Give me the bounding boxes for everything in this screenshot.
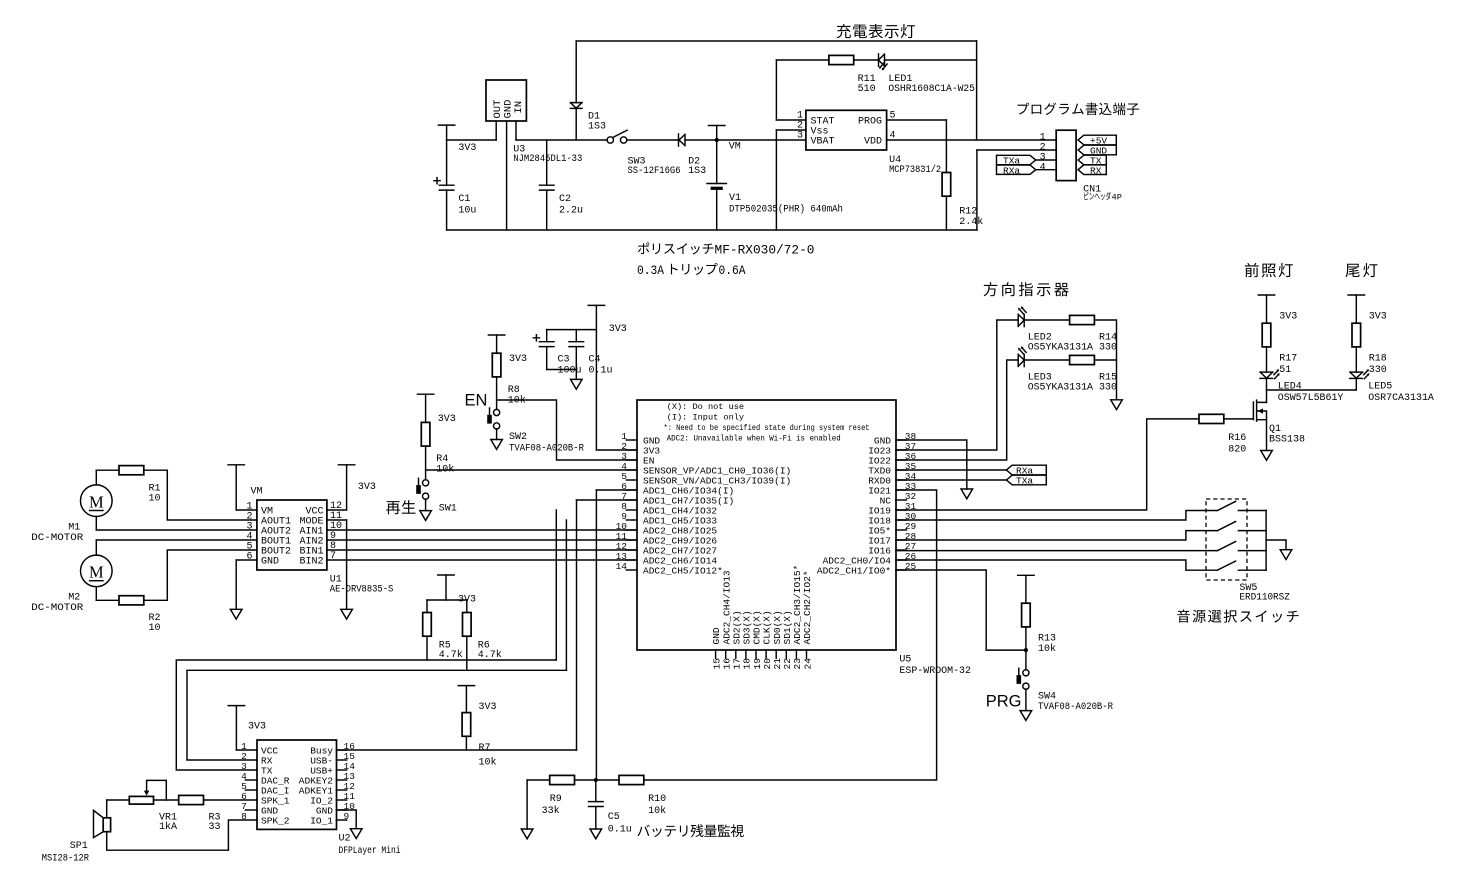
wire IO19 to R16 bbox=[896, 419, 1199, 510]
ground (SW1) bbox=[420, 511, 432, 521]
wire U2 SPK2 to speaker bbox=[107, 820, 257, 850]
wire C3 C4 top bbox=[547, 329, 597, 331]
power 3V3 (U1 VCC) bbox=[338, 465, 376, 510]
resistor R16 820 bbox=[1199, 414, 1246, 455]
wire C3 C4 bottom bbox=[547, 370, 577, 380]
net tag RXa (ESP side) bbox=[1006, 465, 1046, 477]
label program write terminal bbox=[1018, 103, 1140, 116]
svg-text:R9: R9 bbox=[550, 794, 562, 805]
svg-text:10k: 10k bbox=[648, 805, 666, 817]
wire IO16 to SW5 sw3 bbox=[896, 550, 1217, 552]
svg-text:0.1u: 0.1u bbox=[608, 825, 632, 836]
label headlight bbox=[1245, 263, 1293, 277]
svg-text:(X): Do not use: (X): Do not use bbox=[667, 402, 744, 412]
svg-text:51: 51 bbox=[1279, 365, 1291, 376]
wire U4 VDD pin4 to CN1 bbox=[887, 139, 1057, 141]
svg-text:R13: R13 bbox=[1038, 634, 1056, 645]
diode D1 1S3 bbox=[570, 41, 606, 140]
wire U4 STAT pin1 bbox=[776, 60, 806, 120]
wire CN1 pin3 bbox=[1036, 159, 1057, 161]
wire U4 PROG pin5 bbox=[887, 119, 947, 121]
net tag TXa (CN1 side) bbox=[997, 155, 1036, 166]
svg-text:0.1u: 0.1u bbox=[589, 366, 613, 377]
ground (U2 pin10) bbox=[350, 829, 362, 839]
IC U2 DFPlayer Mini bbox=[241, 740, 400, 857]
svg-text:3V3: 3V3 bbox=[479, 702, 497, 713]
resistor R7 10k bbox=[462, 713, 496, 769]
svg-text:330: 330 bbox=[1099, 383, 1117, 394]
power 3V3 (R7) bbox=[458, 686, 496, 713]
wire CN1 pin2 GND bbox=[977, 150, 1056, 230]
wire U1 GND pin6 bbox=[236, 560, 257, 609]
label EN bbox=[465, 392, 488, 410]
connector CN1 pin header 4P bbox=[1040, 130, 1101, 195]
svg-text:3V3: 3V3 bbox=[358, 482, 376, 493]
svg-text:EN: EN bbox=[465, 392, 488, 410]
resistor R5 4.7k bbox=[423, 613, 463, 662]
resistor R1 10 bbox=[119, 466, 161, 505]
resistor R9 33k bbox=[542, 775, 575, 817]
ground (SW4) bbox=[1020, 711, 1032, 721]
svg-text:BSS138: BSS138 bbox=[1269, 435, 1305, 446]
wire U4 Vss pin2 to ground bbox=[776, 130, 806, 230]
label saisei (play) bbox=[386, 500, 415, 514]
power 3V3 (R5 R6) bbox=[438, 575, 476, 606]
label pin-header-4P bbox=[1084, 192, 1122, 203]
wire R2 to U1 BOUT2 bbox=[144, 550, 257, 600]
svg-text:SW4: SW4 bbox=[1038, 692, 1056, 703]
svg-text:U2: U2 bbox=[339, 834, 351, 845]
svg-text:SP1: SP1 bbox=[70, 841, 88, 852]
ground (Q1) bbox=[1261, 451, 1273, 461]
wire M1 plus to R1 bbox=[96, 470, 119, 485]
diode D2 1S3 bbox=[679, 134, 707, 177]
label sound select switch bbox=[1177, 610, 1298, 623]
svg-text:ADC2_CH2/IO2*: ADC2_CH2/IO2* bbox=[802, 570, 813, 644]
svg-text:4P: 4P bbox=[1112, 193, 1123, 203]
DIP switch SW5 ERD110RSZ bbox=[1206, 499, 1290, 604]
svg-text:V1: V1 bbox=[729, 193, 741, 204]
node VM bbox=[709, 126, 741, 153]
resistor R2 10 bbox=[119, 596, 161, 634]
svg-text:IN: IN bbox=[513, 101, 525, 114]
wire regulator input node bbox=[516, 139, 607, 141]
ground (U1 pin11) bbox=[341, 609, 353, 619]
capacitor C4 0.1u bbox=[569, 330, 613, 377]
svg-text:Q1: Q1 bbox=[1269, 424, 1281, 435]
wire Q1 source to ground bbox=[1266, 420, 1268, 451]
svg-text:1kA: 1kA bbox=[159, 821, 177, 833]
ground (C5) bbox=[590, 829, 602, 839]
resistor R15 330 bbox=[1024, 355, 1117, 393]
net tag +5V bbox=[1078, 135, 1116, 147]
wire U1 AIN1 to ESP IO25 bbox=[327, 529, 637, 531]
svg-text:VM: VM bbox=[251, 487, 263, 498]
svg-text:4: 4 bbox=[1040, 163, 1046, 174]
wire 3V3 to U2 pin1 bbox=[236, 749, 257, 751]
wire R4 to ESP SENSOR_VP bbox=[426, 469, 637, 471]
switch SW2 TVAF08-A020B-R bbox=[487, 408, 584, 455]
svg-text:510: 510 bbox=[858, 84, 876, 95]
wire IO23 to LED2 bbox=[896, 320, 1018, 450]
power 3V3 (R4) bbox=[417, 394, 455, 425]
svg-text:C1: C1 bbox=[458, 194, 470, 205]
wire LED2 LED3 common bbox=[1094, 320, 1116, 400]
power 3V3 (U2 VCC) bbox=[228, 706, 266, 750]
svg-text:3V3: 3V3 bbox=[438, 414, 456, 425]
svg-text:U5: U5 bbox=[899, 655, 911, 666]
net tag RXa (CN1 side) bbox=[997, 165, 1036, 176]
svg-text:OS5YKA3131A: OS5YKA3131A bbox=[1028, 343, 1093, 354]
wire IO4 to SW5 sw4 bbox=[896, 560, 1217, 570]
net tag GND bbox=[1078, 145, 1116, 157]
svg-text:0.3A: 0.3A bbox=[637, 264, 664, 278]
wire R1 to U1 AOUT1 bbox=[144, 470, 257, 520]
svg-text:RX: RX bbox=[1090, 165, 1102, 176]
svg-text:10: 10 bbox=[149, 494, 161, 505]
svg-text:R4: R4 bbox=[436, 454, 448, 465]
svg-text:(I): Input only: (I): Input only bbox=[667, 413, 744, 423]
potentiometer VR1 1kA bbox=[129, 780, 177, 833]
svg-text:M1: M1 bbox=[68, 523, 80, 534]
svg-text:R7: R7 bbox=[479, 743, 491, 754]
resistor R6 4.7k bbox=[463, 613, 502, 671]
svg-text:820: 820 bbox=[1228, 445, 1246, 456]
wire ESP IO35 stub bbox=[577, 499, 638, 501]
svg-text:10k: 10k bbox=[479, 757, 497, 769]
wire U3 OUT pin bbox=[495, 121, 497, 140]
capacitor C5 0.1u bbox=[589, 780, 632, 836]
svg-text:3V3: 3V3 bbox=[1369, 312, 1387, 323]
net tag TXa (ESP side) bbox=[1006, 475, 1046, 487]
svg-text:MSI28-12R: MSI28-12R bbox=[42, 854, 89, 865]
svg-text:C2: C2 bbox=[559, 194, 571, 205]
svg-text:24: 24 bbox=[802, 658, 813, 670]
svg-text:MF-RX030/72-0: MF-RX030/72-0 bbox=[715, 244, 815, 258]
svg-text:LED4: LED4 bbox=[1278, 382, 1302, 393]
svg-text:ESP-WROOM-32: ESP-WROOM-32 bbox=[899, 666, 971, 677]
wire U1 BIN1 to ESP IO27 bbox=[327, 549, 637, 551]
svg-text:3: 3 bbox=[797, 131, 803, 142]
wire R3 to U2 SPK1 bbox=[204, 799, 258, 801]
motor M1 DC-MOTOR bbox=[31, 485, 112, 544]
wire ground rail bbox=[447, 229, 977, 231]
power 3V3 (R8) bbox=[488, 335, 527, 365]
resistor R14 330 bbox=[1024, 315, 1117, 353]
svg-text:M: M bbox=[89, 563, 104, 582]
svg-text:TVAF08-A020B-R: TVAF08-A020B-R bbox=[509, 444, 584, 455]
wire LED4 LED5 to Q1 drain bbox=[1267, 378, 1357, 402]
label PRG bbox=[986, 693, 1022, 711]
wire 3V3 to U1 pin12 bbox=[327, 509, 347, 511]
wire SW1 to ground bbox=[425, 499, 427, 511]
ground (SW5) bbox=[1280, 550, 1292, 560]
LED LED1 OSHR1608C1A-W25 bbox=[879, 54, 975, 95]
capacitor C2 2.2u bbox=[539, 140, 583, 230]
svg-text:ADC2: Unavailable when Wi-Fi i: ADC2: Unavailable when Wi-Fi is enabled bbox=[667, 433, 841, 443]
svg-text:OSHR1608C1A-W25: OSHR1608C1A-W25 bbox=[888, 84, 975, 95]
wire U1 MODE pin11 to ground bbox=[327, 520, 347, 609]
switch SW4 TVAF08-A020B-R bbox=[1017, 668, 1114, 713]
LED LED3 OS5YKA3131A bbox=[1018, 346, 1093, 393]
wire M1 minus to U1 AOUT2 bbox=[96, 517, 257, 531]
wire U2 DAC stubs bbox=[245, 780, 257, 790]
svg-text:3V3: 3V3 bbox=[1279, 312, 1297, 323]
wire IO33 vertical bbox=[565, 520, 567, 670]
svg-text:VBAT: VBAT bbox=[811, 137, 835, 148]
LED LED4 OSW57L5B61Y bbox=[1260, 369, 1343, 404]
wire VR1 left to speaker bbox=[107, 800, 130, 818]
resistor R11 510 bbox=[829, 55, 876, 95]
svg-text:6: 6 bbox=[246, 552, 252, 563]
wire M2 plus to U1 BOUT1 bbox=[96, 540, 257, 555]
wire IO35 vertical bbox=[576, 500, 578, 750]
wire SW2 to ground bbox=[496, 429, 498, 440]
svg-text:SW1: SW1 bbox=[439, 504, 457, 515]
svg-text:10: 10 bbox=[149, 623, 161, 634]
resistor R12 2.4k bbox=[942, 120, 983, 230]
svg-text:SS-12F16G6: SS-12F16G6 bbox=[628, 166, 681, 177]
capacitor C1 10u bbox=[434, 140, 477, 230]
net tag TX bbox=[1078, 155, 1106, 167]
svg-text:AE-DRV8835-S: AE-DRV8835-S bbox=[330, 585, 394, 596]
svg-text:3V3: 3V3 bbox=[248, 722, 266, 733]
svg-text:OSR7CA3131A: OSR7CA3131A bbox=[1368, 393, 1434, 404]
resistor R13 10k bbox=[1022, 603, 1056, 670]
svg-text:1S3: 1S3 bbox=[588, 122, 606, 133]
svg-text:C3: C3 bbox=[558, 355, 570, 366]
wire IO18 to SW5 sw1 bbox=[896, 511, 1217, 521]
resistor R17 51 bbox=[1262, 323, 1297, 376]
wire VM to U1 pin1 bbox=[236, 509, 257, 511]
IC U5 ESP-WROOM-32 bbox=[616, 400, 971, 677]
svg-text:PRG: PRG bbox=[986, 693, 1022, 711]
wire STAT LED loop bbox=[776, 59, 976, 61]
wire Busy net bbox=[337, 749, 577, 751]
svg-text:1S3: 1S3 bbox=[688, 166, 706, 177]
wire U1 AIN2 to ESP IO26 bbox=[327, 539, 637, 541]
wire SW5 common to ground bbox=[1266, 540, 1286, 550]
wire SW4 to ground bbox=[1025, 689, 1027, 711]
svg-text:R17: R17 bbox=[1279, 354, 1297, 365]
wire IO22 to LED3 bbox=[896, 360, 1018, 460]
svg-text:CN1: CN1 bbox=[1083, 185, 1101, 196]
svg-text:33k: 33k bbox=[542, 805, 560, 817]
wire +5V top loop bbox=[576, 41, 976, 140]
battery V1 DTP502035(PHR) 640mAh bbox=[707, 140, 843, 230]
svg-text:R18: R18 bbox=[1369, 354, 1387, 365]
transistor Q1 BSS138 bbox=[1253, 400, 1305, 445]
ESP32 pin stubs bbox=[626, 440, 906, 658]
svg-text:DTP502035(PHR) 640mAh: DTP502035(PHR) 640mAh bbox=[729, 204, 843, 216]
svg-text:BIN2: BIN2 bbox=[299, 557, 323, 568]
LED LED5 OSR7CA3131A bbox=[1350, 369, 1434, 404]
svg-text:330: 330 bbox=[1369, 365, 1387, 376]
wire ESP GND pin38 to ground bbox=[896, 440, 967, 489]
wire VM rail bbox=[685, 139, 806, 141]
power 3V3 (ESP) bbox=[588, 305, 627, 450]
label battery level monitor bbox=[637, 824, 743, 837]
svg-text:C5: C5 bbox=[608, 812, 620, 823]
net tag RX bbox=[1078, 165, 1106, 177]
speaker SP1 MSI28-12R bbox=[42, 810, 111, 864]
wire ESP IO34 stub bbox=[596, 489, 637, 491]
ground (LED2 LED3) bbox=[1111, 400, 1123, 410]
ground (ESP pin38) bbox=[961, 489, 973, 499]
svg-text:R10: R10 bbox=[648, 794, 666, 805]
wire IO0 to PRG bbox=[896, 570, 1027, 650]
svg-text:RXa: RXa bbox=[1003, 165, 1020, 176]
wire U2 GND pin10 to ground bbox=[337, 810, 357, 829]
svg-text:TVAF08-A020B-R: TVAF08-A020B-R bbox=[1038, 702, 1113, 713]
svg-text:10k: 10k bbox=[1038, 643, 1056, 655]
svg-text:C4: C4 bbox=[589, 355, 601, 366]
svg-text:2.4k: 2.4k bbox=[959, 216, 983, 228]
wire R16 to Q1 gate bbox=[1224, 418, 1254, 420]
wire U3 GND pin bbox=[506, 121, 508, 230]
ground (R9) bbox=[521, 829, 533, 839]
svg-text:330: 330 bbox=[1099, 343, 1117, 354]
wire IO21 to battery divider bbox=[644, 490, 937, 780]
svg-text:VM: VM bbox=[729, 142, 741, 153]
svg-text:GND: GND bbox=[261, 557, 279, 568]
svg-text:R16: R16 bbox=[1228, 433, 1246, 444]
svg-text:DFPLayer Mini: DFPLayer Mini bbox=[339, 845, 401, 857]
capacitor C3 100u bbox=[533, 330, 581, 377]
svg-text:OSW57L5B61Y: OSW57L5B61Y bbox=[1278, 393, 1344, 404]
svg-text:R12: R12 bbox=[959, 207, 977, 218]
svg-text:LED5: LED5 bbox=[1368, 382, 1392, 393]
resistor R4 10k bbox=[421, 422, 454, 480]
svg-text:4.7k: 4.7k bbox=[439, 649, 463, 661]
wire CN1 pin4 bbox=[1036, 169, 1057, 171]
svg-text:ADC2_CH1/IO0*: ADC2_CH1/IO0* bbox=[817, 566, 891, 577]
wire U2 GND pin7 stub bbox=[245, 809, 257, 811]
svg-text:SW2: SW2 bbox=[509, 432, 527, 443]
switch SW1 TVAF08-A020B-R bbox=[416, 478, 457, 514]
resistor R10 10k bbox=[619, 775, 666, 817]
ground (U1 pin6) bbox=[230, 609, 242, 619]
svg-text:TXa: TXa bbox=[1016, 476, 1033, 487]
svg-text:33: 33 bbox=[209, 822, 221, 833]
svg-text:R8: R8 bbox=[508, 385, 520, 396]
svg-text:VDD: VDD bbox=[864, 137, 882, 148]
wire U2 right pin stubs bbox=[337, 750, 347, 820]
wire TXD0 bbox=[896, 469, 1006, 471]
LED LED2 OS5YKA3131A bbox=[1018, 306, 1093, 353]
wire M2 minus to R2 bbox=[96, 587, 119, 601]
svg-text:NJM2845DL1-33: NJM2845DL1-33 bbox=[513, 154, 582, 165]
svg-text:*: Need to be specified state: *: Need to be specified state during sys… bbox=[664, 423, 870, 433]
wire net EN to ESP pin3 bbox=[497, 400, 637, 460]
wire R5 R6 tops bbox=[427, 600, 467, 613]
power 3V3 regulator output bbox=[438, 125, 476, 154]
svg-text:DC-MOTOR: DC-MOTOR bbox=[31, 533, 83, 544]
wire 3V3 to ESP pin2 bbox=[596, 449, 637, 451]
wire U1 BIN2 to ESP IO14 bbox=[327, 559, 637, 561]
label polyswitch bbox=[637, 242, 815, 278]
svg-text:14: 14 bbox=[616, 561, 628, 572]
regulator U3 NJM2845DL1-33 bbox=[486, 80, 582, 165]
wire RXD0 bbox=[896, 479, 1006, 481]
motor M2 DC-MOTOR bbox=[31, 555, 112, 614]
svg-text:10u: 10u bbox=[458, 206, 476, 217]
label charge indicator bbox=[837, 24, 915, 38]
ground (SW2) bbox=[491, 440, 503, 450]
wire 3V3 to U3 OUT bbox=[447, 139, 497, 141]
svg-text:3V3: 3V3 bbox=[509, 354, 527, 365]
wire U2 TX net bbox=[176, 660, 556, 770]
svg-text:3V3: 3V3 bbox=[458, 143, 476, 154]
resistor R18 330 bbox=[1352, 323, 1387, 376]
svg-text:OS5YKA3131A: OS5YKA3131A bbox=[1028, 383, 1093, 394]
svg-text:M2: M2 bbox=[68, 593, 80, 604]
svg-text:2.2u: 2.2u bbox=[559, 206, 583, 217]
svg-text:100u: 100u bbox=[558, 366, 582, 377]
wire U3 IN pin bbox=[515, 121, 517, 140]
svg-text:4.7k: 4.7k bbox=[478, 649, 502, 661]
wire R9 to ground bbox=[527, 780, 550, 829]
svg-text:PROG: PROG bbox=[858, 117, 882, 128]
svg-text:MCP73831/2: MCP73831/2 bbox=[889, 164, 941, 176]
svg-text:3V3: 3V3 bbox=[609, 324, 627, 335]
svg-text:IO_1: IO_1 bbox=[310, 816, 333, 827]
svg-text:SPK_2: SPK_2 bbox=[261, 816, 290, 827]
svg-text:0.6A: 0.6A bbox=[719, 264, 746, 278]
switch SW3 SS-12F16G6 bbox=[607, 130, 680, 177]
ground (C3 C4) bbox=[571, 379, 583, 389]
wire IO17 to SW5 sw2 bbox=[896, 531, 1217, 540]
wire SW3 to D2 bbox=[627, 139, 679, 141]
power 3V3 (R18) bbox=[1348, 295, 1387, 323]
resistor R3 33 bbox=[179, 795, 221, 833]
wire divider junction bbox=[575, 778, 620, 782]
label direction indicator bbox=[984, 282, 1069, 296]
svg-text:ERD110RSZ: ERD110RSZ bbox=[1239, 593, 1290, 604]
resistor R8 10k bbox=[492, 353, 525, 409]
wire divider to IO34 bbox=[595, 490, 597, 780]
wire VR1 to R3 bbox=[154, 799, 179, 801]
svg-text:M: M bbox=[89, 493, 104, 512]
svg-text:ADC2_CH5/IO12*: ADC2_CH5/IO12* bbox=[643, 566, 723, 577]
driver U1 AE-DRV8835-S bbox=[246, 500, 393, 596]
charger U4 MCP73831/2 bbox=[797, 110, 941, 176]
power 3V3 (R13) bbox=[1018, 575, 1034, 603]
svg-text:DC-MOTOR: DC-MOTOR bbox=[31, 603, 83, 614]
label taillight bbox=[1345, 263, 1377, 277]
wire IO32 vertical bbox=[555, 510, 557, 660]
power VM (U1) bbox=[228, 465, 263, 510]
power 3V3 (R17) bbox=[1258, 295, 1297, 323]
wire U2 RX net bbox=[187, 670, 566, 760]
